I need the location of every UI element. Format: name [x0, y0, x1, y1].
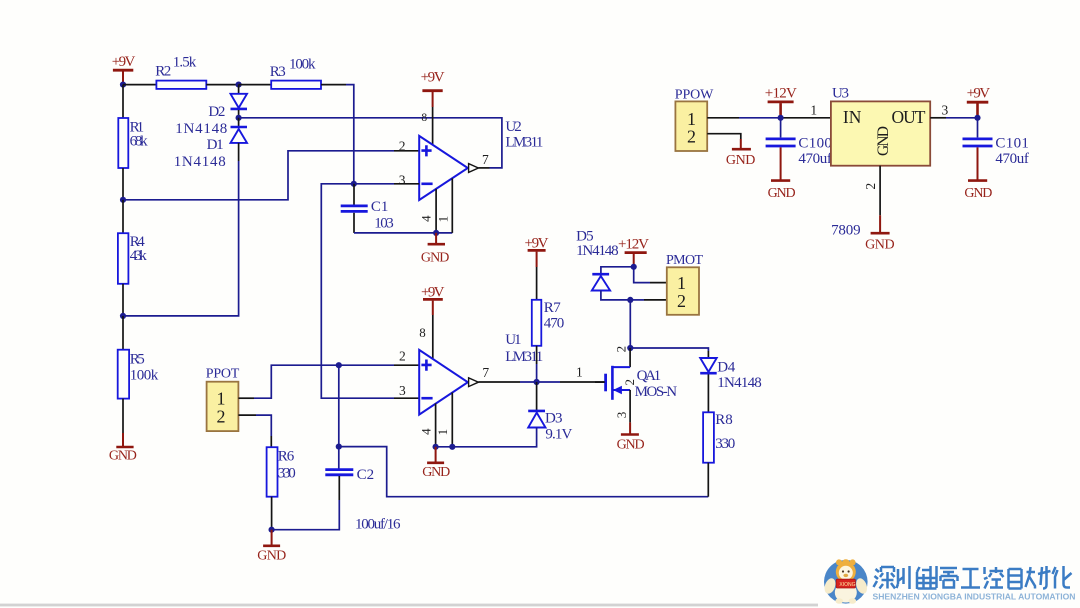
wire: junction down to C2 top [338, 365, 340, 469]
svg-text:330: 330 [278, 466, 296, 482]
wire: U1 pin 8 stem [432, 315, 434, 359]
node B: R2/R3/D2 junction [236, 82, 242, 88]
diode D5 [576, 229, 630, 300]
op-amp U2 [419, 119, 543, 200]
wire: U3 pin2 down [879, 166, 881, 216]
svg-text:1N4148: 1N4148 [175, 121, 227, 137]
svg-text:C101: C101 [995, 136, 1029, 152]
svg-text:1.5k: 1.5k [173, 55, 197, 71]
svg-text:1: 1 [810, 102, 817, 117]
power +12V above C100 [765, 86, 797, 118]
svg-text:D4: D4 [717, 360, 736, 376]
pin 4 lead U2 [435, 189, 437, 233]
resistor R6 [267, 447, 296, 530]
wire: PPOW pin1 to U3 IN [707, 117, 739, 119]
power +9V above C101 [967, 86, 991, 118]
svg-text:7: 7 [482, 152, 489, 167]
node R: C101 junction [974, 115, 980, 121]
wire: U2 output stub [478, 167, 489, 169]
zener diode D3 [452, 382, 572, 447]
svg-text:4: 4 [419, 428, 434, 435]
svg-text:GND: GND [768, 186, 796, 201]
svg-text:OUT: OUT [892, 107, 926, 127]
node Q: C100 junction [778, 115, 784, 121]
svg-text:PPOT: PPOT [206, 367, 240, 382]
ground under U2 pin 4 [421, 233, 450, 265]
capacitor C100 [766, 118, 832, 167]
ground under PPOW pin2 [726, 139, 756, 168]
logo Chinese text (stylized strokes) [874, 566, 1072, 589]
svg-text:QA1: QA1 [637, 368, 662, 384]
svg-text:1: 1 [217, 388, 226, 408]
svg-text:2: 2 [687, 127, 696, 147]
regulator U3 [831, 86, 930, 239]
svg-text:1N4148: 1N4148 [174, 154, 226, 170]
svg-text:+12V: +12V [765, 86, 797, 102]
svg-text:8: 8 [421, 112, 427, 124]
svg-text:100k: 100k [289, 56, 316, 72]
svg-text:+9V: +9V [525, 235, 549, 251]
svg-text:PPOW: PPOW [675, 88, 714, 103]
wire: C2 junction around to R8 bottom [339, 447, 709, 497]
resistor R3 [270, 56, 321, 89]
svg-text:100uf/16: 100uf/16 [355, 517, 401, 533]
ground under C100 [768, 147, 796, 201]
wire: R1 junction to U2 pin2 [123, 151, 394, 200]
node J: R6/C2 ground junction [269, 527, 275, 533]
svg-text:GND: GND [421, 250, 450, 265]
node N: +12V junction [631, 264, 637, 270]
pin 4 lead U1 [435, 403, 437, 446]
node E: R4/R5 junction [120, 313, 126, 319]
node M: U1 pin1 junction [449, 444, 455, 450]
svg-text:PMOT: PMOT [666, 253, 703, 268]
node O: D5 bottom / PMOT pin2 junction [627, 297, 633, 303]
svg-text:SHENZHEN XIONGBA INDUSTRIAL AU: SHENZHEN XIONGBA INDUSTRIAL AUTOMATION [873, 591, 1076, 601]
svg-text:U1: U1 [505, 332, 521, 348]
connector PMOT [666, 253, 703, 315]
wire: junction to PMOT pin2 [630, 299, 644, 301]
ground under R5 [109, 399, 137, 464]
pin 1 lead U1 [451, 393, 453, 447]
pin 1 lead U2 [451, 178, 453, 233]
wire: +12V junction to D5 top [601, 267, 634, 273]
resistor R4 [118, 200, 147, 316]
node G: U2 pin4/GND junction [433, 230, 439, 236]
svg-text:2: 2 [863, 183, 878, 190]
wire: drain junction to D4 [630, 348, 708, 351]
node I: C2 top junction [336, 444, 342, 450]
svg-text:GND: GND [726, 153, 756, 168]
svg-text:2: 2 [677, 291, 686, 311]
svg-text:68k: 68k [130, 134, 149, 150]
svg-text:+9V: +9V [112, 54, 136, 70]
capacitor C101 [963, 118, 1029, 167]
ground under U3 pin2 [865, 215, 895, 252]
svg-text:+12V: +12V [618, 237, 649, 253]
svg-text:9.1V: 9.1V [545, 426, 572, 442]
svg-text:2: 2 [399, 138, 406, 153]
op-amp U1 [419, 332, 543, 415]
svg-text:3: 3 [399, 172, 406, 187]
resistor R5 [118, 316, 159, 399]
node D: R1 bottom junction [120, 197, 126, 203]
svg-text:2: 2 [622, 379, 637, 386]
svg-text:3: 3 [399, 383, 406, 398]
wire: PPOT pin2 to R6 [238, 414, 256, 416]
svg-text:1: 1 [435, 216, 450, 223]
power +9V above U1 [421, 285, 445, 316]
wire: U1 pins 4/1 ground row [436, 446, 453, 448]
svg-text:R5: R5 [130, 351, 145, 367]
node K: U1 output junction [534, 379, 540, 385]
wire: D1 bottom down to R4 junction row [123, 161, 239, 316]
svg-text:8: 8 [419, 325, 426, 340]
svg-text:7: 7 [482, 365, 489, 380]
svg-text:LM311: LM311 [505, 349, 543, 365]
wire: +12V junction to PMOT pin1 [634, 267, 650, 283]
svg-text:D3: D3 [545, 411, 563, 427]
diode D4 [700, 351, 762, 412]
capacitor C2 [272, 467, 401, 533]
ground under QA1 source [617, 422, 645, 452]
svg-text:C1: C1 [371, 199, 389, 215]
svg-text:IN: IN [843, 107, 862, 127]
svg-text:XIONG: XIONG [839, 582, 855, 588]
svg-text:4: 4 [419, 215, 434, 222]
node F: pin3/C1 junction [351, 181, 357, 187]
svg-text:GND: GND [257, 548, 286, 563]
node A: +9V junction top-left [120, 82, 126, 88]
svg-text:330: 330 [715, 436, 735, 452]
power +9V top-left [112, 54, 136, 84]
bottom gray edge line [0, 604, 818, 607]
node P: QA1 drain junction [627, 345, 633, 351]
power +12V above D5/PMOT [618, 237, 649, 267]
logo: blue circle with mascot [823, 559, 869, 604]
svg-text:GND: GND [865, 238, 895, 253]
svg-text:R2: R2 [155, 64, 171, 80]
svg-text:U2: U2 [505, 119, 521, 135]
svg-text:U3: U3 [832, 86, 849, 102]
wire: PPOW pin2 to ground [707, 134, 741, 139]
wire: junction to R3 left [239, 84, 272, 86]
svg-text:470uf: 470uf [995, 151, 1029, 167]
resistor R2 [155, 55, 206, 89]
svg-text:470: 470 [544, 316, 565, 332]
svg-text:GND: GND [422, 465, 450, 480]
svg-text:D2: D2 [208, 104, 225, 120]
resistor R1 [118, 85, 148, 200]
svg-text:R3: R3 [270, 64, 286, 80]
resistor R7 [532, 267, 565, 382]
svg-text:LM311: LM311 [505, 135, 543, 151]
svg-text:GND: GND [109, 449, 137, 464]
svg-text:D1: D1 [207, 137, 224, 153]
connector PPOW [675, 88, 714, 151]
connector PPOT [206, 367, 240, 432]
wire: U3 OUT to C101 [930, 117, 946, 119]
wire: R3 right over and down to pin3 junction [321, 84, 346, 86]
svg-text:3: 3 [942, 102, 949, 117]
svg-text:GND: GND [617, 437, 645, 452]
svg-text:7809: 7809 [831, 223, 861, 239]
svg-text:R8: R8 [715, 412, 733, 428]
svg-text:GND: GND [875, 126, 892, 156]
power +9V above U2 [421, 70, 445, 107]
wire: +9V junction to R2 left [123, 84, 156, 86]
svg-text:1: 1 [435, 429, 450, 436]
resistor R8 [703, 412, 735, 497]
svg-text:470uf: 470uf [798, 151, 832, 167]
svg-text:C2: C2 [357, 467, 375, 483]
svg-text:103: 103 [374, 216, 394, 232]
wire: D5 junction down to QA1 drain node [629, 300, 631, 348]
svg-text:43k: 43k [130, 248, 148, 264]
node H: U1 pin2 net junction [336, 362, 342, 368]
svg-text:+9V: +9V [421, 70, 445, 86]
svg-text:R7: R7 [544, 300, 562, 316]
svg-text:+9V: +9V [967, 86, 991, 102]
wire: R2 right to D2 junction [206, 84, 238, 86]
svg-text:MOS-N: MOS-N [635, 384, 678, 400]
wire: U1 output to R7/D3 junction and QA1 gate [478, 381, 520, 383]
svg-text:1N4148: 1N4148 [576, 243, 619, 259]
wire: PPOT pin1 to U1 pin2 row [238, 397, 254, 399]
wire: C1 bottom to U2 pins 4 and 1 [354, 232, 452, 234]
power +9V above R7 [525, 235, 549, 267]
svg-text:3: 3 [614, 412, 629, 419]
svg-text:1N4148: 1N4148 [717, 375, 762, 391]
U2 output arrowhead [469, 164, 479, 173]
wire: U2 pin 8 stem [432, 107, 434, 145]
transistor QA1 (MOS-N) [595, 348, 677, 422]
svg-text:GND: GND [964, 186, 992, 201]
diode D1 [174, 118, 247, 170]
node L: U1 pin4 junction [433, 444, 439, 450]
diode D2 [175, 85, 247, 137]
wire: U2 pin3 net to C1 top and left drop [321, 184, 394, 398]
U1 output arrowhead [469, 378, 479, 387]
svg-text:100k: 100k [130, 368, 159, 384]
ground under C101 [964, 147, 992, 201]
capacitor C1 [341, 184, 394, 233]
svg-text:R6: R6 [278, 448, 295, 464]
node C: D2/D1 junction [236, 115, 242, 121]
svg-text:2: 2 [217, 406, 226, 426]
svg-text:C100: C100 [798, 136, 832, 152]
wire: feedback net from D-junction to output loop of U2 [239, 118, 502, 168]
svg-text:1: 1 [576, 364, 583, 379]
svg-text:2: 2 [613, 346, 628, 353]
ground under R6 [257, 530, 286, 564]
ground under U1 pin4 [422, 447, 450, 480]
svg-text:2: 2 [399, 349, 406, 364]
